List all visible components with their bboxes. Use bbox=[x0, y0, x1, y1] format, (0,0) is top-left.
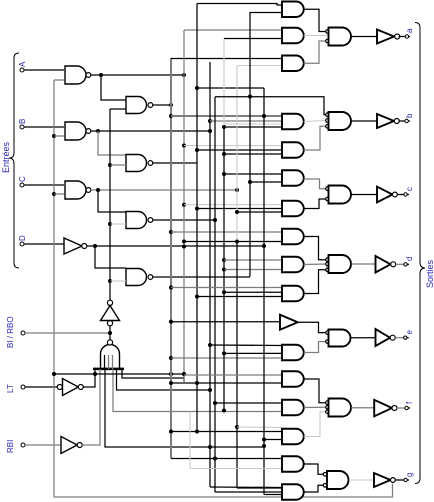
node riser x237 y212 bbox=[235, 210, 239, 214]
light riser x190 bbox=[189, 412, 191, 469]
NAND a input bubbles bbox=[326, 30, 330, 34]
node riser x224 y260 bbox=[222, 258, 226, 262]
riser x210 bbox=[209, 62, 211, 487]
node main riser BI/RBO junction bbox=[108, 331, 112, 335]
NAND c input bubbles bbox=[326, 187, 330, 191]
wire NAND c to inverter c bbox=[351, 194, 377, 196]
node riser x197 y150 bbox=[195, 148, 199, 152]
inverter e bbox=[376, 329, 391, 346]
wire y241 to AND d1 input bbox=[184, 241, 282, 243]
wire LT to inverter bbox=[25, 386, 57, 388]
node B1 output at riser x210 bbox=[208, 129, 212, 133]
wire NAND2-1 lower input from main riser bbox=[110, 108, 126, 110]
inverter b bbox=[377, 114, 394, 128]
wire NAND a to inverter a bbox=[351, 36, 377, 38]
AND a1 bbox=[282, 2, 304, 18]
node riser x197 y296 bbox=[195, 295, 199, 299]
wire NAND2-3 output to riser x215 bbox=[153, 219, 215, 221]
node y373 at gray bus bbox=[169, 372, 173, 376]
wire e2 output to NAND e bbox=[304, 342, 326, 353]
svg-text:Sorties: Sorties bbox=[425, 259, 434, 288]
wire NAND2-1 output bbox=[153, 104, 171, 106]
bubble inverter D bbox=[82, 244, 87, 249]
NAND2-3 bbox=[126, 212, 147, 229]
wire riser below buffer bbox=[109, 326, 111, 340]
AND g1 bbox=[282, 456, 304, 472]
node C1 output branch bbox=[96, 188, 100, 192]
light wire y468 to AND g1 input bbox=[190, 468, 281, 470]
node riser x224 y154 bbox=[222, 152, 226, 156]
svg-text:b: b bbox=[405, 113, 414, 118]
wire y12 to AND a1 input bbox=[250, 12, 282, 14]
wire y345 to AND e2 input bbox=[210, 344, 282, 347]
wire x54 to NAND C1 lower input bbox=[54, 193, 64, 195]
wire c1 output to NAND c bbox=[304, 179, 326, 189]
AND b1 bbox=[282, 114, 304, 130]
wire g1 output to NAND g bbox=[304, 464, 324, 474]
NAND A1 bbox=[65, 66, 86, 84]
gray bus from LT net: vertical x54 down and around bottom bbox=[54, 80, 393, 497]
wire to pin g bbox=[395, 479, 404, 481]
gray wire y375 to AND f1 input bbox=[184, 374, 282, 376]
wire x54 to LT riser bbox=[54, 373, 95, 375]
wire d1 output to NAND d bbox=[304, 237, 326, 260]
wire RBI output to bar riser bbox=[82, 369, 100, 445]
node bus x171 y321 bbox=[169, 320, 173, 324]
wire to pin a bbox=[399, 36, 406, 38]
left brace Entrees bbox=[9, 53, 19, 268]
pin e bbox=[404, 336, 407, 339]
wire NAND2-4 output to riser x250 bbox=[153, 276, 250, 278]
buffer BI/RBO triangle bbox=[101, 306, 120, 321]
wire riser x264 corner y494 to AND g2 input bbox=[264, 494, 282, 496]
gray wire y232 to AND d1 input bbox=[171, 231, 281, 233]
wire buffer e1 output to NAND e bbox=[298, 322, 326, 332]
NAND b input bubbles bbox=[326, 113, 330, 117]
wire main riser to NAND2-3 lower input bbox=[110, 223, 126, 225]
pin f bbox=[405, 406, 408, 409]
node y88 at riser x197 bbox=[195, 86, 199, 90]
NAND c bbox=[329, 186, 352, 204]
svg-text:g: g bbox=[405, 473, 414, 477]
wire y431 to AND f3 input bbox=[171, 431, 281, 433]
wire g2 output to NAND g bbox=[304, 485, 324, 492]
gray wire y260 to AND d2 input bbox=[224, 259, 281, 261]
gray wire y121 to AND b1 input bbox=[210, 120, 282, 122]
wire NAND b to inverter b bbox=[351, 120, 377, 122]
wire riser x101 to NAND2-1 upper input bbox=[101, 75, 126, 100]
wire x54 to NAND B1 lower input bbox=[54, 135, 64, 137]
AND d1 bbox=[282, 229, 304, 245]
tick f bbox=[408, 407, 410, 409]
node riser x210 y389 bbox=[208, 388, 212, 392]
LT inverter output bubble bbox=[78, 385, 83, 390]
tick d bbox=[407, 263, 409, 265]
wire LT output to bar riser bbox=[83, 369, 95, 387]
wire c2 output to NAND c bbox=[304, 199, 326, 209]
blanking NAND inner stub 3 bbox=[112, 355, 114, 369]
buffer BI/RBO input bubble bbox=[107, 300, 112, 305]
inverter d bbox=[376, 256, 391, 273]
blanking NAND output bubble bbox=[107, 340, 112, 345]
blanking NAND inner stub 2 bbox=[108, 355, 110, 369]
bubble inverter a bbox=[395, 34, 400, 39]
wire y403 to AND f2 input bbox=[215, 402, 281, 404]
wire y373 net continuing right bbox=[95, 374, 184, 383]
AND g2 bbox=[282, 484, 304, 500]
svg-text:C: C bbox=[18, 176, 27, 182]
wire x54 top corner into NAND A1 lower input bbox=[54, 79, 64, 81]
wire NAND2-2 output to riser x197 bbox=[153, 162, 197, 164]
node A1 output branch bbox=[99, 73, 103, 77]
LT inverter input bubble bbox=[57, 385, 62, 390]
node riser x264 y116 bbox=[262, 114, 266, 118]
wire y208 to AND c2 input bbox=[197, 208, 281, 210]
tick g bbox=[407, 479, 409, 481]
thick gray bus riser x171 bbox=[170, 58, 172, 459]
node on x54 at B NAND bbox=[52, 134, 56, 138]
gray wire y358 to AND e2 input bbox=[171, 357, 282, 359]
light wire y124 to AND b1 input bbox=[224, 123, 282, 125]
tick c bbox=[407, 194, 409, 196]
node bus x171 y430 bbox=[169, 430, 173, 434]
wire a2 output to NAND a bbox=[304, 35, 329, 37]
wire blanking input from right y410 bbox=[113, 369, 281, 412]
AND d3 bbox=[282, 286, 304, 302]
gray wire NAND d to inverter d bbox=[351, 263, 375, 265]
AND f1 bbox=[282, 371, 304, 387]
wire riser x237 corner y488 to AND g2 input bbox=[237, 487, 282, 489]
pin D bbox=[20, 242, 24, 246]
NAND e input bubbles bbox=[326, 331, 330, 335]
wire blanking y447 bbox=[105, 369, 264, 447]
wire NAND e to inverter e bbox=[351, 337, 376, 339]
wire blanking input from right y391 bbox=[117, 369, 211, 390]
node bus x171 y358 bbox=[169, 356, 173, 360]
wire to pin e bbox=[395, 337, 403, 339]
riser x250 bbox=[249, 12, 251, 277]
pin BI/RBO bbox=[21, 331, 25, 335]
node B1 output branch bbox=[96, 129, 100, 133]
tick b bbox=[409, 120, 410, 122]
node riser x224 y127 bbox=[222, 125, 226, 129]
node riser x224 y410 bbox=[222, 409, 226, 413]
node riser x210 y121 bbox=[208, 119, 212, 123]
bubble NAND2-4 bbox=[148, 275, 153, 280]
node riser x215 y403 bbox=[213, 401, 217, 405]
wire RBI to inverter bbox=[25, 444, 61, 446]
wire a1 output to NAND a bbox=[304, 9, 326, 31]
wire y440 to AND f3 input bbox=[264, 439, 282, 441]
node riser x224 y174 bbox=[222, 172, 226, 176]
inverter f bbox=[374, 400, 392, 417]
NAND B1 bbox=[65, 122, 86, 140]
pin B bbox=[20, 125, 24, 129]
svg-text:LT: LT bbox=[6, 384, 15, 393]
wire to pin b bbox=[399, 120, 406, 122]
NAND g input bubbles bbox=[323, 473, 327, 477]
light wire y145 to AND b2 input bbox=[184, 145, 281, 147]
node D line end riser x264 bbox=[262, 244, 266, 248]
node riser x224 y353 bbox=[222, 351, 226, 355]
pin g bbox=[404, 478, 407, 481]
pin c bbox=[404, 193, 407, 196]
light riser x237 bbox=[236, 66, 238, 242]
node riser x184 y374 bbox=[182, 372, 186, 376]
bubble NAND C1 bbox=[86, 188, 91, 193]
light wire y427 to AND f3 input bbox=[237, 426, 282, 429]
node NAND2-1 out at thick bus bbox=[169, 103, 173, 107]
LT inverter bbox=[63, 379, 79, 396]
wire C1 output long gray to NAND c bubble bbox=[91, 189, 237, 191]
wire f3 output to NAND f bbox=[304, 412, 326, 437]
node riser x224 y269 bbox=[222, 268, 226, 272]
node y383 at riser x197 bbox=[195, 381, 199, 385]
node D output branch bbox=[93, 244, 97, 248]
NAND f bbox=[329, 399, 352, 417]
wire y212 to AND c2 input bbox=[237, 211, 282, 213]
node bus x171 y287 bbox=[169, 285, 173, 289]
svg-text:c: c bbox=[405, 187, 414, 191]
node riser x264 y440 bbox=[262, 438, 266, 442]
riser x215 bbox=[214, 97, 216, 492]
node y447 at riser x210 bbox=[208, 445, 212, 449]
svg-text:A: A bbox=[18, 61, 27, 67]
wire y292 to AND d3 input bbox=[224, 291, 282, 293]
node riser x250 y182 bbox=[248, 180, 252, 184]
AND a2 bbox=[282, 28, 304, 44]
bubble inverter d bbox=[391, 262, 396, 267]
node riser x237 y241 bbox=[235, 240, 239, 244]
wire to pin d bbox=[396, 263, 404, 265]
pin LT bbox=[21, 385, 25, 389]
node riser x197 y208 bbox=[195, 207, 199, 211]
svg-text:RBI: RBI bbox=[6, 440, 15, 453]
NAND b bbox=[329, 112, 352, 130]
NAND d bbox=[329, 255, 352, 273]
wire y150 to AND b2 input bbox=[197, 149, 281, 151]
tick e bbox=[407, 337, 409, 339]
wire d3 output to NAND d bbox=[304, 270, 326, 294]
wire bus corner y458 to AND g1 input bbox=[171, 458, 281, 460]
node riser x184 y247 bbox=[182, 245, 186, 249]
wire y127 to AND b1 input bbox=[224, 126, 282, 128]
NAND2-4 bbox=[126, 269, 146, 286]
wire riser x95 to NAND2-4 upper input bbox=[95, 246, 126, 268]
wire y96 to NAND b top bubble bbox=[215, 97, 326, 115]
bubble NAND A1 bbox=[86, 73, 91, 78]
node C1 output at riser x237 bbox=[235, 188, 239, 192]
wire y353 to AND e2 input bbox=[224, 352, 282, 354]
NAND e bbox=[329, 330, 351, 347]
wire blanking input y383 to f group bbox=[122, 369, 184, 378]
svg-text:Entrées: Entrées bbox=[1, 141, 11, 173]
node riser x224 y292 bbox=[222, 290, 226, 294]
wire to pin f bbox=[397, 407, 405, 409]
node riser x184 y241 bbox=[182, 240, 186, 244]
riser x237 lower bbox=[236, 242, 238, 489]
node main riser tap 224 bbox=[108, 222, 112, 226]
blanking NAND input bar bbox=[93, 368, 124, 371]
node riser x215 y458 bbox=[213, 457, 217, 461]
wire main riser to NAND2-2 lower input bbox=[110, 164, 126, 166]
node riser x237 y427 bbox=[235, 425, 239, 429]
inverter c bbox=[377, 187, 393, 203]
node main riser tap 281 bbox=[108, 279, 112, 283]
right brace Sorties bbox=[415, 23, 425, 484]
wire C to NAND C1 bbox=[24, 184, 64, 186]
NAND2-1 bbox=[126, 97, 147, 114]
wire y39 to AND a2 input bbox=[224, 38, 282, 40]
buffer e1 bbox=[280, 315, 298, 330]
riser x224 light upper bbox=[223, 39, 225, 125]
pin RBI bbox=[21, 443, 25, 447]
NAND f input bubbles bbox=[326, 401, 330, 405]
gray wire y287 to AND d3 input bbox=[171, 287, 282, 289]
AND c2 bbox=[282, 201, 304, 217]
bubble NAND2-3 bbox=[148, 218, 153, 223]
bubble inverter g bbox=[391, 478, 396, 483]
node bus x171 y383 bbox=[169, 381, 173, 385]
light wire y65 to AND a3 input bbox=[237, 65, 282, 67]
svg-text:d: d bbox=[405, 257, 414, 261]
pin C bbox=[20, 183, 24, 187]
wire riser x98 to NAND2-2 upper input bbox=[98, 131, 126, 155]
inverter D bbox=[64, 238, 82, 254]
svg-text:a: a bbox=[405, 28, 414, 33]
AND f3 bbox=[282, 429, 304, 445]
wire bus y58 to AND a3 input bbox=[171, 58, 282, 60]
buffer BI/RBO output bubble bbox=[107, 321, 112, 326]
node riser x250 y96 bbox=[248, 95, 252, 99]
wire y383 to AND f1 input bbox=[171, 382, 281, 384]
AND d2 bbox=[282, 257, 304, 273]
light wire NAND g to inverter g bbox=[349, 479, 374, 481]
AND c1 bbox=[282, 170, 304, 186]
thick gray wire y116 to AND b1 input bbox=[171, 115, 281, 117]
wire riser x215 corner to AND g2 input bbox=[215, 491, 281, 493]
bubble NAND2-2 bbox=[148, 161, 153, 166]
blanking NAND inner stub 1 bbox=[104, 355, 106, 369]
bubble inverter c bbox=[393, 192, 398, 197]
inverter a bbox=[377, 30, 394, 44]
node on x54 at C NAND bbox=[52, 192, 56, 196]
bubble inverter f bbox=[392, 406, 397, 411]
inverter g bbox=[374, 473, 391, 487]
wire a3 output to NAND a bbox=[304, 41, 326, 63]
bubble NAND2-1 bbox=[148, 103, 153, 108]
wire riser x98 to NAND2-3 upper input bbox=[98, 190, 126, 212]
wire A to NAND A1 bbox=[24, 69, 64, 71]
gray riser x184 bbox=[183, 30, 185, 383]
NAND2-2 bbox=[126, 155, 147, 172]
node riser x184 y204 bbox=[182, 203, 186, 207]
gray wire NAND f to inverter f bbox=[351, 407, 374, 409]
riser x224 black lower bbox=[223, 127, 225, 411]
gray wire y29 to AND a2 input bbox=[184, 29, 282, 31]
AND e2 bbox=[282, 345, 304, 361]
NAND g bbox=[327, 471, 349, 489]
wire y154 to AND b2 input bbox=[224, 153, 281, 155]
blanking NAND dome bbox=[101, 345, 120, 370]
NAND a bbox=[329, 28, 352, 46]
wire y174 to AND c1 input bbox=[224, 173, 281, 175]
pin b bbox=[405, 119, 408, 122]
node riser x184 y145 bbox=[182, 144, 186, 148]
AND f2 bbox=[282, 400, 304, 416]
node LT riser bbox=[93, 372, 97, 376]
wire b2 output to NAND b bbox=[304, 126, 326, 150]
svg-text:BI / RBO: BI / RBO bbox=[6, 316, 15, 348]
wire BI/RBO node bbox=[25, 332, 109, 334]
svg-text:D: D bbox=[18, 235, 27, 241]
RBI inverter bbox=[61, 437, 77, 454]
wire y182 to AND c1 input bbox=[250, 181, 281, 183]
tick a bbox=[409, 36, 410, 38]
light wire y204 to AND c2 input bbox=[184, 204, 281, 206]
pin d bbox=[404, 263, 407, 266]
node bus x171 y116 bbox=[169, 114, 173, 118]
wire f2 output to NAND f bbox=[304, 406, 326, 408]
RBI inverter output bubble bbox=[77, 443, 82, 448]
wire riser x210 corner to AND g2 input bbox=[210, 486, 281, 489]
wire b1 output to NAND b bbox=[304, 121, 326, 122]
AND b2 bbox=[282, 142, 304, 158]
wire B to NAND B1 bbox=[24, 126, 64, 128]
riser x264 bbox=[263, 88, 265, 495]
pin A bbox=[20, 68, 24, 72]
node on x54 at LT row bbox=[52, 372, 56, 376]
bubble inverter e bbox=[390, 335, 395, 340]
main riser x110 (internal blanking net) bbox=[109, 109, 111, 300]
bubble NAND B1 bbox=[86, 129, 91, 134]
riser x197 bbox=[196, 4, 198, 432]
wire f1 output to NAND f bbox=[304, 379, 326, 403]
wire y321 to buffer e input bbox=[171, 321, 280, 323]
pin a bbox=[405, 35, 408, 38]
AND a3 bbox=[282, 56, 304, 72]
node riser x210 y345 bbox=[208, 343, 212, 347]
wire y3 to AND a1 input bbox=[197, 4, 282, 6]
wire A1 output bbox=[91, 74, 184, 76]
wire d2 output to NAND d bbox=[304, 263, 326, 266]
wire D inverted output long bbox=[87, 245, 264, 247]
node bus x171 y232 bbox=[169, 230, 173, 234]
wire y296 to AND d3 input bbox=[197, 296, 281, 298]
gray wire y269 to AND d2 input bbox=[224, 269, 282, 271]
wire main riser to NAND2-4 lower input bbox=[110, 280, 126, 282]
node main riser tap 165 bbox=[108, 163, 112, 167]
node NAND2-3 output at riser x215 bbox=[213, 218, 217, 222]
wire to pin c bbox=[397, 194, 404, 196]
wire y88 net bbox=[197, 87, 264, 89]
NAND C1 bbox=[65, 181, 86, 199]
svg-text:B: B bbox=[18, 119, 27, 124]
node riser x197 y431 bbox=[195, 430, 199, 434]
bubble inverter b bbox=[394, 119, 399, 124]
node A1 output at gray riser x184 bbox=[182, 73, 186, 77]
svg-text:e: e bbox=[405, 330, 414, 335]
wire B1 output bbox=[91, 130, 210, 132]
node y447 at riser x264 bbox=[262, 444, 266, 448]
wire D to inverter D bbox=[24, 243, 64, 245]
NAND d input bubbles bbox=[326, 258, 330, 262]
